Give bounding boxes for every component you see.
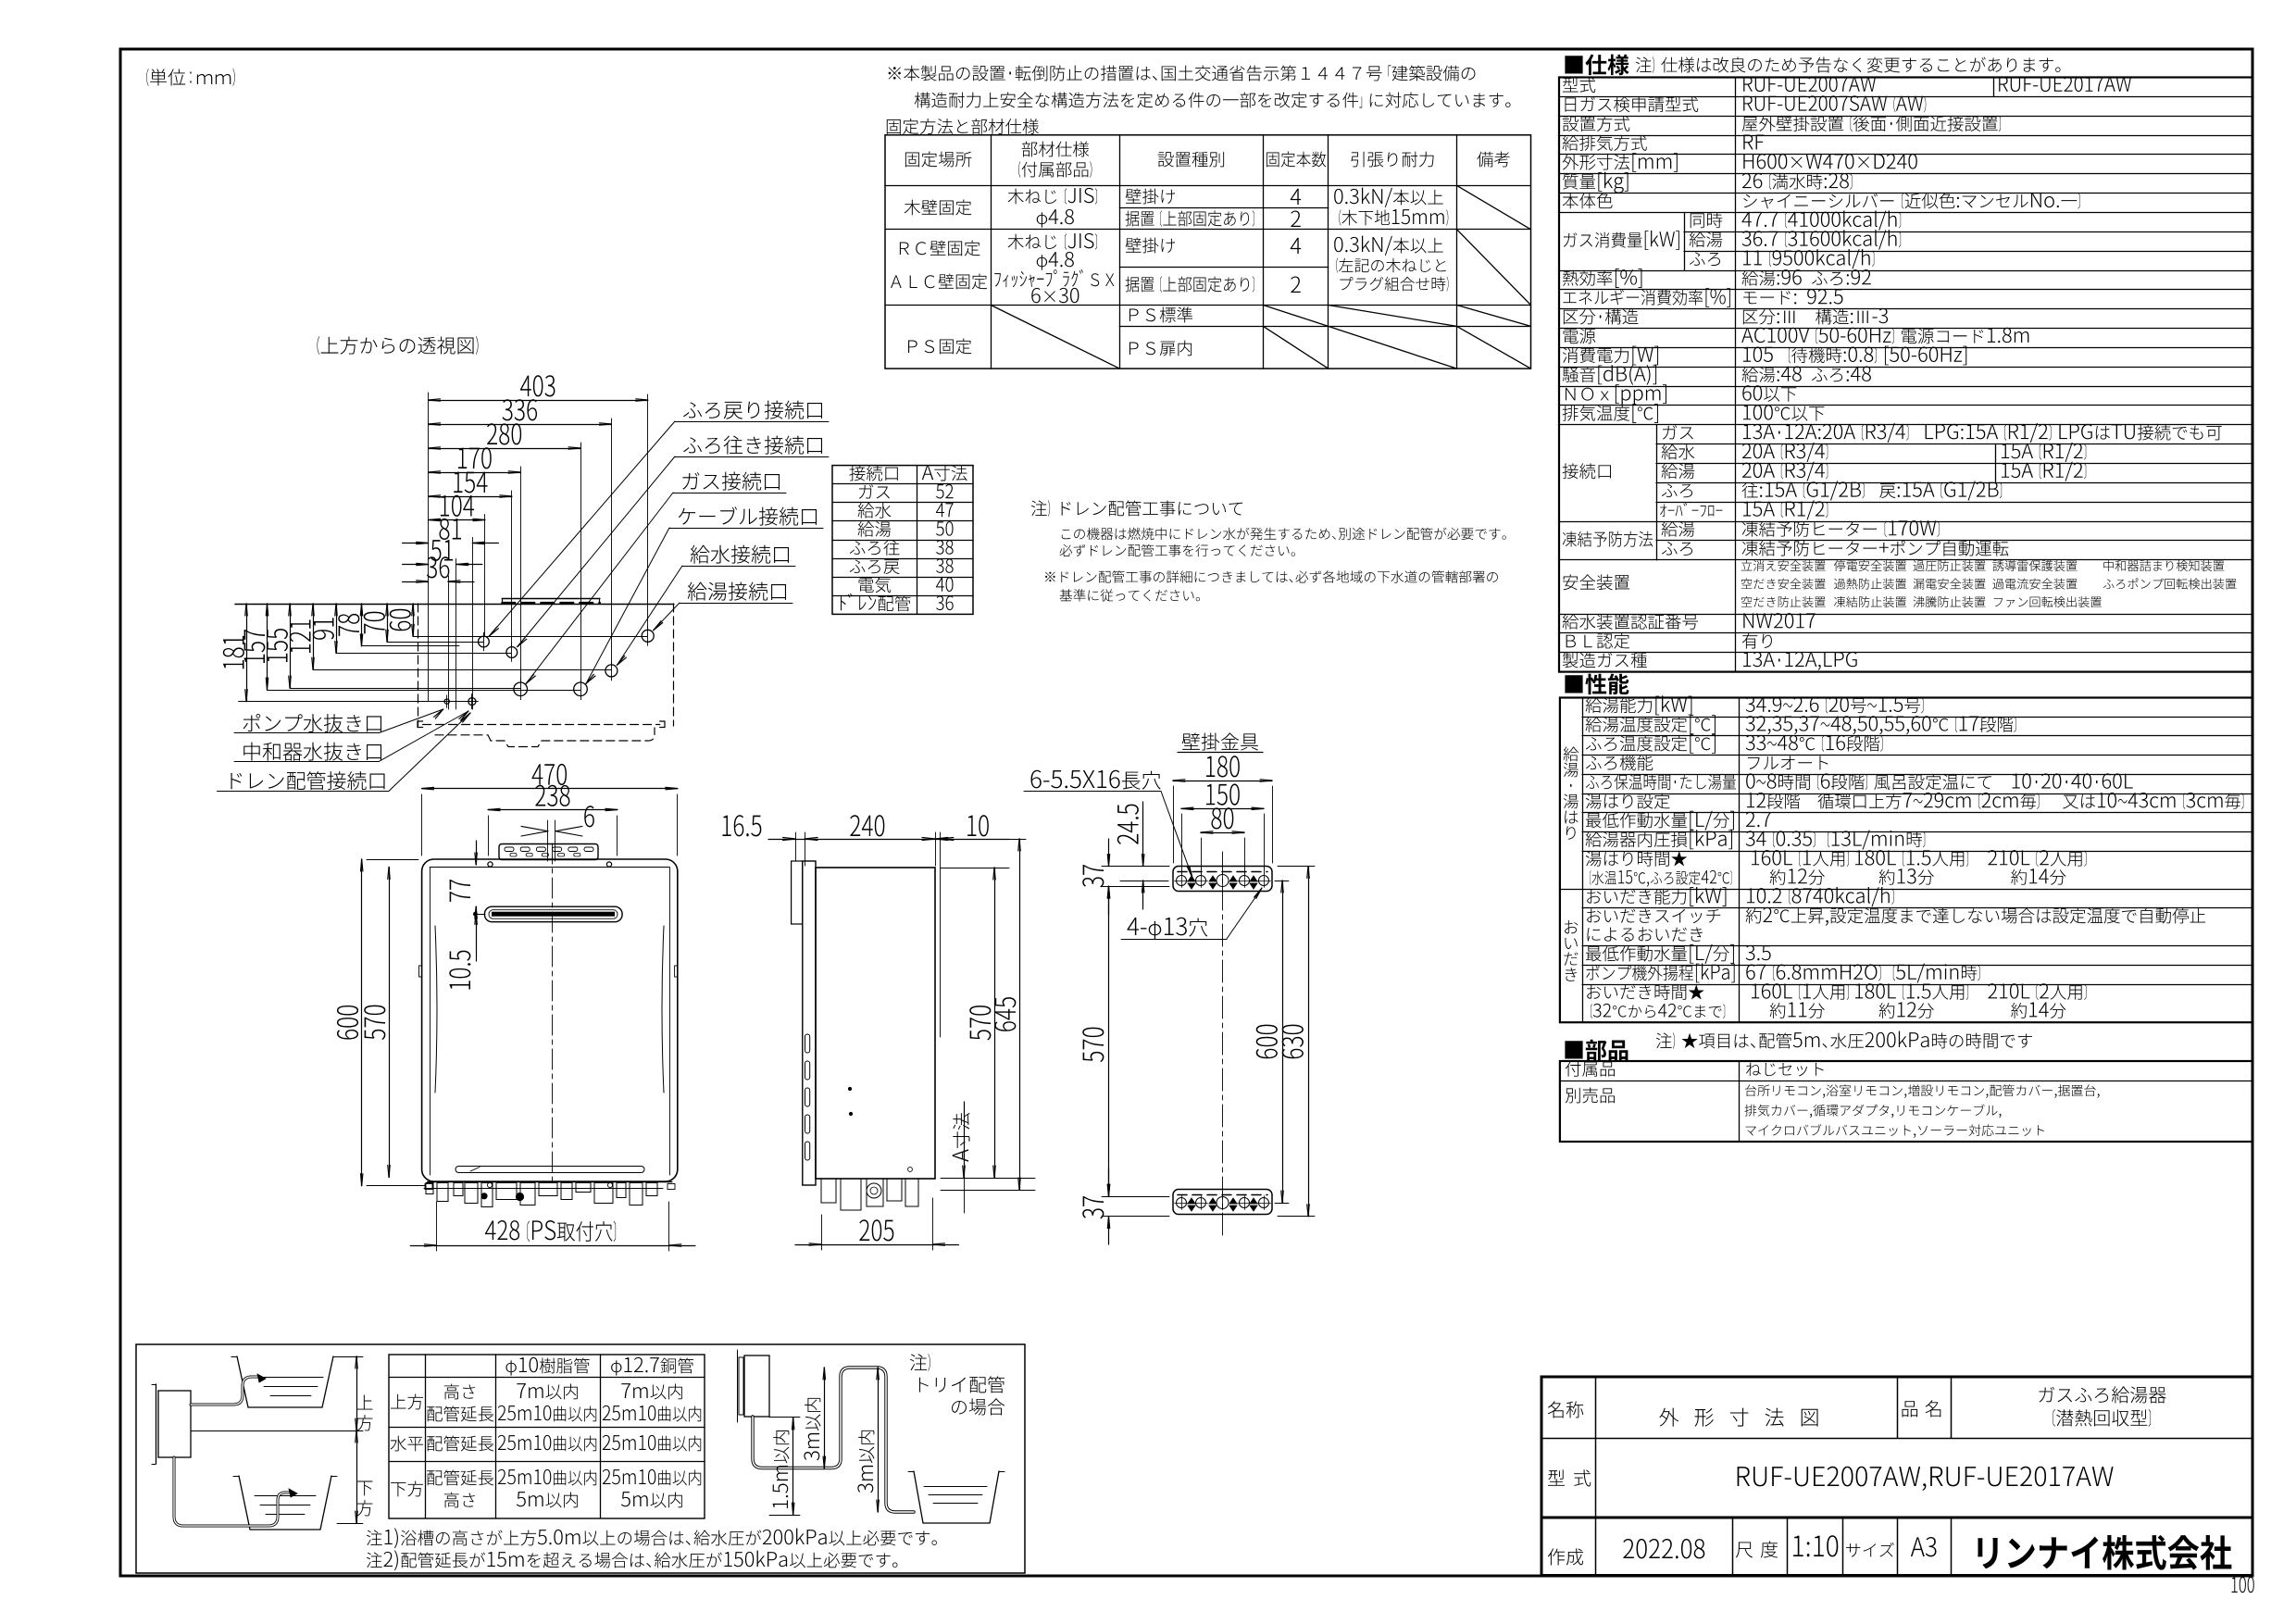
spec table sub dividers: [1684, 213, 1686, 271]
piping notes: [367, 1530, 382, 1546]
top view bottom tray dashed: [423, 724, 660, 726]
fixing table diagonals: [1457, 185, 1531, 229]
spec safety row: [1563, 574, 1629, 590]
front view side curves: [435, 926, 437, 1093]
installation regulation note line2: [915, 93, 1358, 108]
bracket dim 180: [1173, 781, 1272, 782]
front view side tabs: [419, 966, 422, 977]
bracket dim 80: [1201, 832, 1244, 834]
piping torii pipe white core: [753, 1368, 914, 1512]
page number: [2232, 1577, 2254, 1593]
fixing table header texts: [905, 152, 972, 168]
side view top tab: [792, 861, 803, 924]
bracket dim 570: [1108, 886, 1110, 1196]
title block grid: [1541, 1377, 2252, 1576]
piping torii caption: [910, 1354, 927, 1370]
side view top dims 16.5 240 10: [768, 839, 1009, 841]
piping torii dim 3m upper: [824, 1368, 826, 1468]
side view dim 205: [795, 1244, 959, 1246]
front view corner screws: [487, 1182, 492, 1187]
drain note: [1031, 501, 1047, 517]
piping upper label: [357, 1394, 373, 1409]
top view left drain labels with leaders: [243, 714, 381, 732]
top view left vertical dimension chain: [246, 604, 248, 702]
bracket top piece: [1173, 867, 1272, 892]
fixing table PS rows: [908, 339, 971, 355]
front view dim 600: [361, 859, 363, 1186]
bracket bottom piece: [1173, 1190, 1272, 1215]
front view dim 570: [389, 868, 391, 1178]
bracket dim 150: [1181, 808, 1264, 810]
front view body: [422, 859, 678, 1181]
bracket slot label: [1031, 770, 1120, 789]
top view dim extension verticals: [428, 393, 430, 701]
piping lower label: [357, 1481, 373, 1496]
side view bottom fittings: [821, 1179, 836, 1203]
piping left diagram lower tub: [239, 1476, 331, 1530]
performance rows: [1586, 697, 1653, 713]
piping torii pipes: [753, 1368, 914, 1512]
side view screw symbol: [908, 1168, 913, 1172]
installation regulation note line1: [889, 66, 1005, 81]
piping left diagram heater: [158, 1391, 191, 1457]
top view wall bracket dashed: [502, 598, 600, 600]
front view dim 238: [488, 809, 618, 811]
performance note: [1656, 1033, 1672, 1049]
piping section box: [136, 1344, 1025, 1573]
side view body: [816, 868, 935, 1179]
title block bottom row: [1548, 1548, 1583, 1565]
spec table label/value divider: [1735, 78, 1737, 672]
title block row1: [1548, 1401, 1584, 1418]
fixing table title: [887, 119, 1039, 134]
piping torii tub: [914, 1471, 999, 1523]
front view dim 428 PS: [410, 1245, 695, 1247]
bracket dim 24.5: [1142, 802, 1144, 867]
bracket dim 37 top: [1108, 839, 1110, 867]
side view wall plate: [803, 861, 816, 1185]
fixing table wood wall row: [905, 200, 972, 216]
top view caption: [317, 336, 319, 355]
piping limits table texts: [505, 1360, 516, 1375]
side view right dims: [994, 868, 996, 1178]
spec row texts: [1563, 77, 1595, 93]
spec last rows: [1563, 614, 1699, 630]
top view wall line: [235, 604, 674, 606]
piping torii diagram heater: [744, 1355, 769, 1417]
side view A dim label: [964, 1102, 966, 1178]
performance group labels: [1564, 746, 1579, 761]
piping torii dim 1.5m: [792, 1418, 794, 1515]
performance table grid: [1560, 698, 2252, 1023]
fixing table grid: [885, 135, 1531, 369]
top view horizontal dimension chain: [429, 400, 648, 402]
top view port circles: [479, 636, 490, 647]
top view port measure lines: [239, 701, 479, 703]
front view center dashed line: [552, 843, 554, 1181]
bracket center line: [1222, 852, 1224, 1236]
spec table outer border: [1559, 78, 2252, 672]
piping left diagram upper tub: [237, 1356, 333, 1407]
spec table row lines: [1559, 96, 2252, 98]
bracket dim 37 bottom: [1108, 1168, 1110, 1196]
top view unit dashed outline: [418, 604, 419, 726]
top view tray clips: [418, 721, 423, 728]
front view exhaust slot: [484, 906, 622, 922]
piping left diagram pipes: [191, 1377, 257, 1405]
front view dim 77: [476, 841, 478, 865]
bracket dim 630: [1308, 867, 1310, 1217]
spec heading: [1565, 55, 1628, 76]
piping left diagram dim line: [356, 1356, 358, 1523]
piping torii dim 3m lower: [878, 1368, 880, 1512]
parts heading: [1565, 1040, 1628, 1060]
front view dim 10.5: [476, 912, 478, 961]
parts rows: [1566, 1061, 1615, 1077]
fixing table RC/ALC wall rows: [900, 241, 980, 256]
front view dim 470: [422, 788, 678, 790]
front view top wall bracket: [499, 844, 598, 860]
front view dim 6: [521, 826, 548, 831]
bracket dim 600: [1282, 881, 1284, 1203]
performance heading: [1565, 674, 1628, 695]
front view bottom slot: [455, 1167, 644, 1173]
bracket holes top: [1177, 876, 1187, 886]
front view bottom fittings: [426, 1183, 433, 1194]
side view louver slots: [805, 1034, 810, 1053]
top view right port labels with leaders: [683, 401, 822, 419]
piping limits table grid: [389, 1355, 705, 1518]
bracket hole label: [1127, 918, 1146, 935]
bracket holes bottom: [1177, 1198, 1187, 1208]
bracket caption: [1182, 732, 1258, 750]
parts table grid: [1560, 1061, 2252, 1142]
unit note (tanni mm): [146, 69, 148, 86]
side view dots: [848, 1087, 851, 1090]
A dim table: [832, 466, 973, 615]
title block model row: [1548, 1469, 1591, 1486]
